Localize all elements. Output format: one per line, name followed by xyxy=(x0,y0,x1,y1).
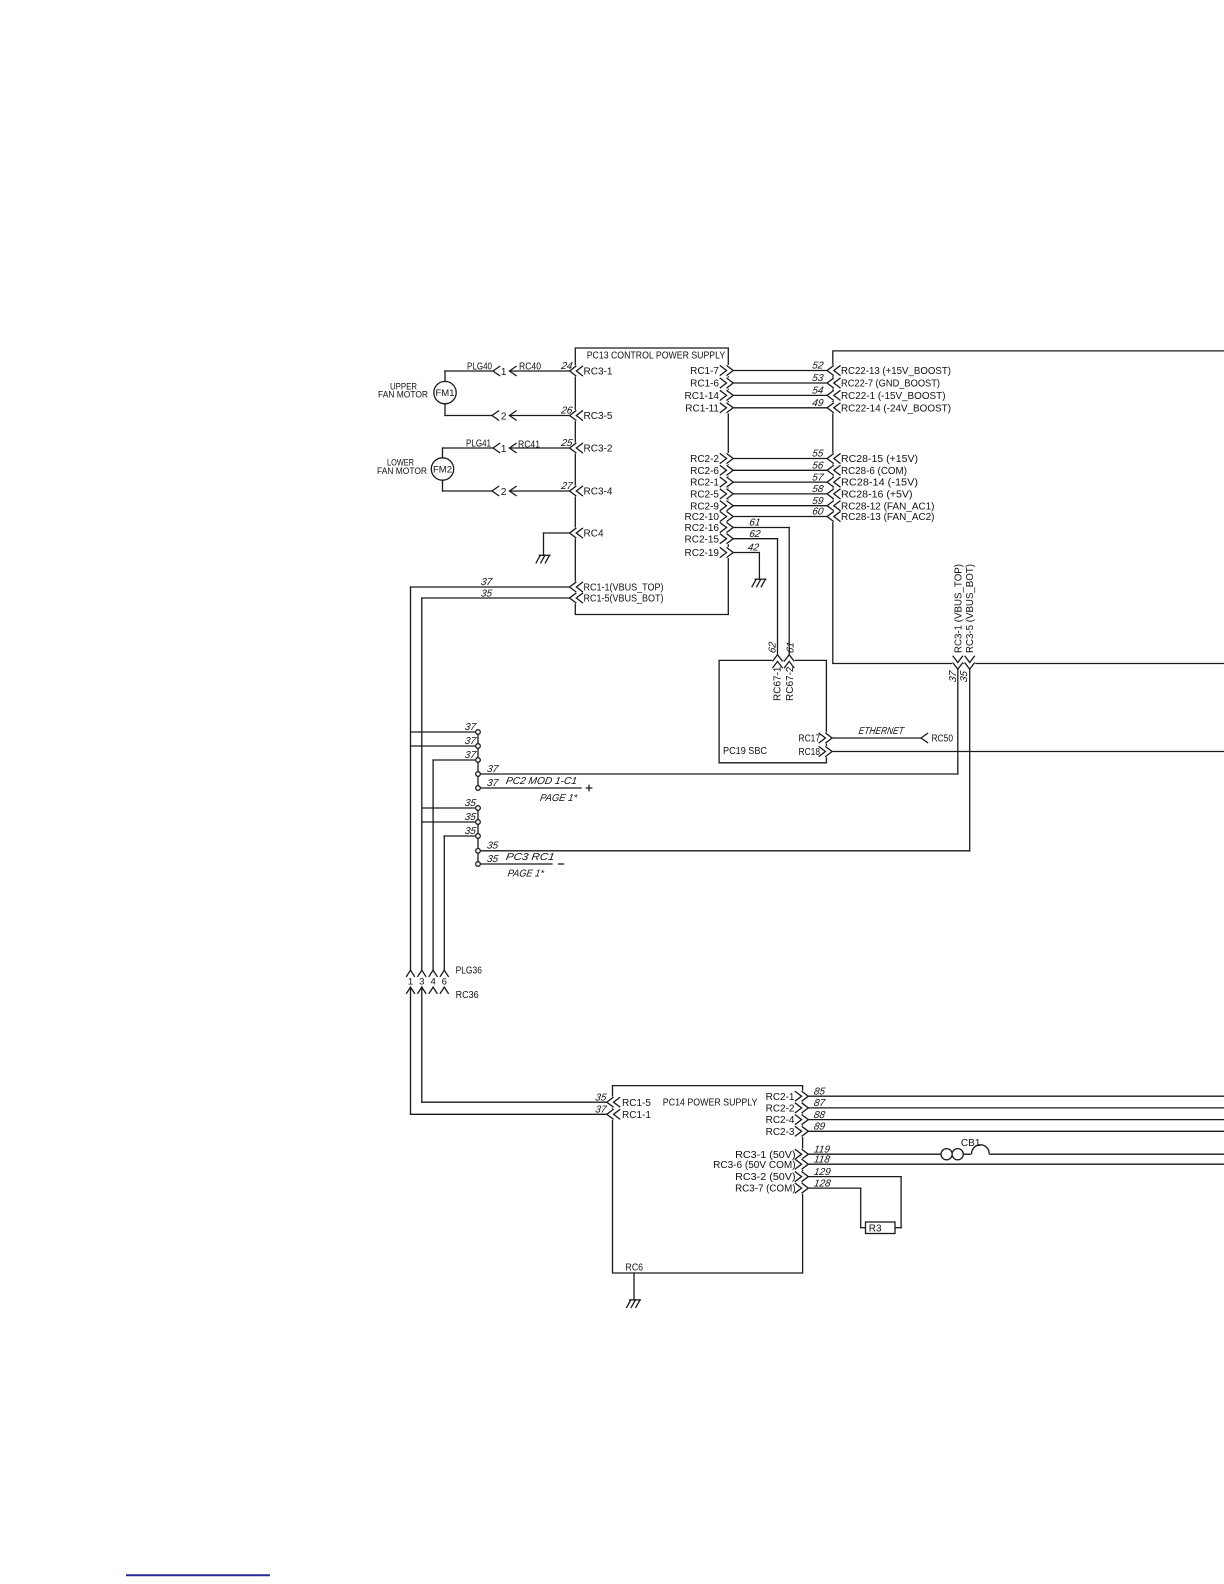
svg-text:RC2-5: RC2-5 xyxy=(690,490,719,501)
svg-text:RC28-14 (-15V): RC28-14 (-15V) xyxy=(841,478,918,489)
wire 52 RC1-7 to RC22 xyxy=(733,361,827,372)
svg-text:87: 87 xyxy=(813,1098,826,1109)
wire 55 RC2-2 to RC28 xyxy=(733,449,827,460)
wire 87 RC2-2 to page edge xyxy=(808,1098,1224,1109)
pin RC1-14 xyxy=(685,390,734,402)
svg-text:RC22-7 (GND_BOOST): RC22-7 (GND_BOOST) xyxy=(841,379,940,390)
svg-text:FAN MOTOR: FAN MOTOR xyxy=(378,390,428,400)
svg-text:R3: R3 xyxy=(869,1224,882,1235)
wire 88 RC2-4 to page edge xyxy=(808,1110,1224,1121)
svg-text:58: 58 xyxy=(811,484,824,495)
pin RC28-12 xyxy=(827,500,934,512)
pin RC3-5 xyxy=(559,406,612,422)
svg-text:RC3-4: RC3-4 xyxy=(584,487,613,498)
svg-text:RC1-7: RC1-7 xyxy=(690,366,719,377)
SBC box PC19 xyxy=(719,660,826,762)
pin RC28-16 xyxy=(827,488,912,500)
motor FM1 xyxy=(434,381,456,403)
svg-text:RC2-4: RC2-4 xyxy=(766,1115,795,1126)
wire 37 branch to PLG36-4 xyxy=(433,750,477,761)
svg-text:85: 85 xyxy=(813,1086,826,1097)
svg-text:61: 61 xyxy=(786,641,797,654)
ground at RC6 xyxy=(627,1300,641,1308)
wire ETHERNET RC17 to RC50 xyxy=(832,726,921,738)
svg-text:RC50: RC50 xyxy=(932,734,954,745)
svg-text:RC36: RC36 xyxy=(456,990,479,1001)
svg-text:RC2-2: RC2-2 xyxy=(690,454,719,465)
svg-text:RC2-10: RC2-10 xyxy=(685,512,720,523)
svg-text:61: 61 xyxy=(748,518,761,529)
pin RC17 xyxy=(799,732,833,744)
wire RC6 to ground xyxy=(633,1273,635,1300)
pin RC22-13 xyxy=(827,365,951,377)
svg-text:RC2-6: RC2-6 xyxy=(690,466,719,477)
node 37 xyxy=(476,744,481,749)
node 37 xyxy=(476,772,481,777)
wire 128 RC3-7 to R3 xyxy=(808,1178,865,1227)
wire FM2 pin2 to RC3-4 xyxy=(443,480,570,498)
pin RC2-19 xyxy=(685,547,734,559)
plug RC50 xyxy=(921,733,953,744)
svg-text:RC67-2: RC67-2 xyxy=(785,666,796,701)
resistor R3 xyxy=(866,1222,896,1235)
pin RC67-1 xyxy=(767,641,783,701)
svg-text:37: 37 xyxy=(486,764,499,775)
pin RC1-1 on PC14 xyxy=(594,1105,651,1121)
wire 61 RC2-16 to RC67-2 xyxy=(733,518,789,655)
pin RC3-1 (VBUS_TOP) on bus box xyxy=(948,564,964,683)
wire bus pin6 vertical xyxy=(443,836,445,970)
svg-text:2: 2 xyxy=(501,487,507,498)
wire bus 37 vertical xyxy=(410,587,412,970)
svg-text:RC67-1: RC67-1 xyxy=(773,666,784,701)
wire 35 ladder spine xyxy=(477,808,479,864)
wire 118 RC3-6 to page edge xyxy=(808,1154,1224,1165)
svg-text:RC1-5(VBUS_BOT): RC1-5(VBUS_BOT) xyxy=(584,594,664,605)
wire 35 RC1-5 to bus xyxy=(422,589,570,600)
wire 35 branch from RC1-5 bus xyxy=(422,798,477,809)
svg-text:52: 52 xyxy=(811,361,824,372)
wire 56 RC2-6 to RC28 xyxy=(733,461,827,472)
pin RC1-7 xyxy=(690,365,733,377)
receptacle RC36 xyxy=(407,987,479,1001)
svg-text:26: 26 xyxy=(559,406,573,417)
wire 59 RC2-9 to RC28 xyxy=(733,496,827,507)
svg-text:RC22-13 (+15V_BOOST): RC22-13 (+15V_BOOST) xyxy=(841,366,951,377)
svg-text:RC18: RC18 xyxy=(799,747,821,758)
svg-text:RC3-5: RC3-5 xyxy=(584,411,613,422)
svg-text:RC2-16: RC2-16 xyxy=(685,523,720,534)
svg-text:RC40: RC40 xyxy=(519,362,541,373)
svg-text:PC13 CONTROL POWER SUPPLY: PC13 CONTROL POWER SUPPLY xyxy=(587,351,726,362)
wire 37 branch from RC1-1 bus xyxy=(411,722,478,733)
breaker CB1 xyxy=(941,1138,989,1160)
svg-text:RC1-1(VBUS_TOP): RC1-1(VBUS_TOP) xyxy=(584,583,664,594)
wire RC4 to ground xyxy=(544,533,570,555)
svg-text:1: 1 xyxy=(501,444,507,455)
pin RC3-5 (VBUS_BOT) on bus box xyxy=(959,564,976,683)
svg-text:128: 128 xyxy=(813,1178,832,1189)
wire bus pin4 vertical xyxy=(432,760,434,970)
svg-text:RC2-3: RC2-3 xyxy=(766,1127,795,1138)
svg-text:RC3-7 (COM): RC3-7 (COM) xyxy=(735,1184,796,1195)
node minus terminal xyxy=(559,863,564,865)
svg-text:FM2: FM2 xyxy=(433,465,452,476)
svg-text:PC2 MOD 1-C1: PC2 MOD 1-C1 xyxy=(505,776,578,787)
wire 49 RC1-11 to RC22 xyxy=(733,398,827,409)
svg-text:27: 27 xyxy=(559,481,573,492)
svg-text:RC22-1 (-15V_BOOST): RC22-1 (-15V_BOOST) xyxy=(841,391,946,402)
wire 35 to VBUS_BOT chevron xyxy=(480,841,969,852)
pin RC4 xyxy=(570,527,604,539)
wire 35 VBUS_BOT drop xyxy=(969,669,971,851)
power supply box PC13 xyxy=(575,348,728,615)
svg-text:RC3-2 (50V): RC3-2 (50V) xyxy=(735,1172,796,1183)
svg-text:ETHERNET: ETHERNET xyxy=(858,726,905,737)
wire 54 RC1-14 to RC22 xyxy=(733,386,827,397)
svg-text:118: 118 xyxy=(813,1154,831,1165)
wire 85 RC2-1 to page edge xyxy=(808,1086,1224,1097)
svg-text:49: 49 xyxy=(811,398,824,409)
label UPPER FAN MOTOR xyxy=(378,381,428,399)
label LOWER FAN MOTOR xyxy=(377,458,427,476)
wire 37 RC1-1 to bus xyxy=(411,577,570,588)
svg-text:PLG41: PLG41 xyxy=(466,439,491,450)
pin RC22-14 xyxy=(827,402,951,414)
wire FM1 pin1 to RC3-1 xyxy=(445,361,570,381)
wire 129 RC3-2 to R3 xyxy=(808,1167,901,1228)
pin RC67-2 xyxy=(784,641,797,701)
pin RC1-5 (VBUS_BOT) xyxy=(570,592,664,604)
wire 53 RC1-6 to RC22 xyxy=(733,373,827,384)
pin RC22-1 xyxy=(827,390,945,402)
pin RC3-2 (50V) on PC14 xyxy=(735,1171,808,1183)
pin RC3-7 (COM) on PC14 xyxy=(735,1183,808,1195)
pin RC1-6 xyxy=(690,377,733,389)
svg-text:35: 35 xyxy=(594,1092,607,1103)
svg-text:RC41: RC41 xyxy=(518,440,540,451)
svg-text:RC1-11: RC1-11 xyxy=(685,403,719,414)
svg-text:RC1-14: RC1-14 xyxy=(685,391,720,402)
pin RC28-6 xyxy=(827,465,907,477)
ground at RC2-19 xyxy=(752,579,766,587)
svg-text:RC3-1 (VBUS_TOP): RC3-1 (VBUS_TOP) xyxy=(953,564,964,653)
svg-text:35: 35 xyxy=(486,841,499,852)
revision underline mark xyxy=(127,1574,269,1576)
pin RC2-6 xyxy=(690,465,733,477)
svg-text:35: 35 xyxy=(486,854,499,865)
svg-text:RC28-12 (FAN_AC1): RC28-12 (FAN_AC1) xyxy=(841,501,935,512)
svg-text:RC22-14 (-24V_BOOST): RC22-14 (-24V_BOOST) xyxy=(841,403,951,414)
svg-text:PC14 POWER SUPPLY: PC14 POWER SUPPLY xyxy=(663,1097,758,1108)
svg-text:RC2-9: RC2-9 xyxy=(690,501,719,512)
svg-text:89: 89 xyxy=(813,1122,826,1133)
wire 37 RC36-1 to PC14 RC1-1 xyxy=(411,987,608,1114)
pin RC22-7 xyxy=(827,377,940,389)
svg-text:PLG40: PLG40 xyxy=(467,361,492,372)
svg-text:RC3-6 (50V COM): RC3-6 (50V COM) xyxy=(713,1160,796,1171)
power supply box PC14 xyxy=(613,1086,803,1273)
pin RC28-15 xyxy=(827,453,918,465)
pin RC28-14 xyxy=(827,477,918,489)
ground at RC4 xyxy=(536,555,550,563)
svg-text:60: 60 xyxy=(811,507,824,518)
pin RC3-6 (50V COM) on PC14 xyxy=(713,1159,808,1171)
node 35 xyxy=(476,806,481,811)
node 37 xyxy=(476,758,481,763)
svg-text:35: 35 xyxy=(959,670,970,683)
pin numbers 1 3 4 6 xyxy=(408,977,447,988)
svg-text:35: 35 xyxy=(480,589,493,600)
pin RC2-2 xyxy=(690,453,733,465)
svg-text:24: 24 xyxy=(559,361,573,372)
pin RC1-1 (VBUS_TOP) xyxy=(570,581,664,593)
pin RC2-5 xyxy=(690,488,733,500)
pin RC2-1 xyxy=(690,477,733,489)
svg-text:RC28-15 (+15V): RC28-15 (+15V) xyxy=(841,454,918,465)
svg-text:129: 129 xyxy=(813,1167,832,1178)
svg-text:62: 62 xyxy=(767,641,778,654)
pin RC28-13 xyxy=(827,511,934,523)
svg-text:RC2-19: RC2-19 xyxy=(685,548,720,559)
pin RC2-4 on PC14 xyxy=(766,1114,809,1126)
pin RC2-2 on PC14 xyxy=(766,1102,809,1114)
wire 57 RC2-1 to RC28 xyxy=(733,472,827,483)
wire 62 RC2-15 to RC67-1 xyxy=(733,529,777,655)
svg-text:54: 54 xyxy=(811,386,824,397)
svg-text:RC28-16 (+5V): RC28-16 (+5V) xyxy=(841,490,913,501)
motor FM2 xyxy=(431,458,453,480)
pin RC2-1 on PC14 xyxy=(766,1091,809,1103)
node plus terminal xyxy=(586,785,591,790)
wire RC18 to page edge xyxy=(832,751,1224,753)
node 35 xyxy=(476,862,481,867)
svg-text:RC1-5: RC1-5 xyxy=(622,1098,651,1109)
svg-text:57: 57 xyxy=(811,472,824,483)
svg-text:37: 37 xyxy=(480,577,493,588)
svg-text:56: 56 xyxy=(811,461,824,472)
svg-text:RC4: RC4 xyxy=(584,529,604,540)
wire FM2 pin1 to RC3-2 xyxy=(443,439,570,458)
wire 60 RC2-10 to RC28 xyxy=(733,507,827,518)
wire 35 branch to PLG36-6 xyxy=(444,826,477,837)
svg-text:53: 53 xyxy=(811,373,824,384)
svg-text:FAN MOTOR: FAN MOTOR xyxy=(377,466,427,476)
pin RC2-16 xyxy=(685,522,734,534)
svg-text:CB1: CB1 xyxy=(961,1138,981,1149)
svg-text:RC28-13 (FAN_AC2): RC28-13 (FAN_AC2) xyxy=(841,512,935,523)
node 35 xyxy=(476,849,481,854)
svg-text:PLG36: PLG36 xyxy=(456,966,483,977)
bus box RC22/RC28 xyxy=(833,351,1224,664)
svg-text:RC3-5 (VBUS_BOT): RC3-5 (VBUS_BOT) xyxy=(965,564,976,653)
wire 119 RC3-1 through CB1 xyxy=(808,1144,1224,1155)
wire 58 RC2-5 to RC28 xyxy=(733,484,827,495)
svg-text:RC28-6 (COM): RC28-6 (COM) xyxy=(841,466,907,477)
svg-text:PAGE 1*: PAGE 1* xyxy=(507,869,546,880)
wire 42 RC2-19 to ground xyxy=(733,543,760,579)
svg-text:55: 55 xyxy=(811,449,824,460)
wire 35 branch to PLG36-3 xyxy=(422,812,477,823)
wire 37 VBUS_TOP drop xyxy=(957,669,959,774)
pin RC1-5 on PC14 xyxy=(594,1092,651,1108)
svg-text:PAGE 1*: PAGE 1* xyxy=(539,793,579,804)
svg-text:RC2-1: RC2-1 xyxy=(690,478,719,489)
pin RC2-9 xyxy=(690,500,733,512)
svg-text:88: 88 xyxy=(813,1110,826,1121)
svg-text:42: 42 xyxy=(747,543,760,554)
wire 37 stub PC2 MOD 1-C1 xyxy=(480,776,581,804)
svg-text:RC1-1: RC1-1 xyxy=(622,1110,651,1121)
pin RC3-2 xyxy=(559,438,612,454)
svg-text:RC2-1: RC2-1 xyxy=(766,1092,795,1103)
svg-text:RC3-2: RC3-2 xyxy=(584,444,613,455)
svg-text:FM1: FM1 xyxy=(436,388,455,399)
pin RC2-3 on PC14 xyxy=(766,1126,809,1138)
svg-text:59: 59 xyxy=(811,496,824,507)
svg-text:62: 62 xyxy=(748,529,761,540)
node 37 xyxy=(476,730,481,735)
pin RC3-1 xyxy=(559,361,612,377)
node 35 xyxy=(476,820,481,825)
wire 35 RC36-3 to PC14 RC1-5 xyxy=(422,987,607,1102)
wire 89 RC2-3 to page edge xyxy=(808,1122,1224,1133)
svg-text:37: 37 xyxy=(486,778,499,789)
svg-text:2: 2 xyxy=(501,411,507,422)
svg-text:25: 25 xyxy=(559,438,573,449)
pin RC1-11 xyxy=(685,402,733,414)
svg-text:RC3-1: RC3-1 xyxy=(584,367,613,378)
svg-text:1: 1 xyxy=(501,367,507,378)
svg-text:RC17: RC17 xyxy=(799,734,821,745)
svg-text:RC6: RC6 xyxy=(626,1263,644,1274)
wire 37 to VBUS_TOP chevron xyxy=(480,764,958,775)
svg-text:RC2-2: RC2-2 xyxy=(766,1104,795,1115)
svg-text:37: 37 xyxy=(948,670,959,683)
wire FM1 pin2 to RC3-5 xyxy=(445,404,570,423)
svg-text:RC1-6: RC1-6 xyxy=(690,379,719,390)
pin RC2-15 xyxy=(685,533,734,545)
pin RC3-4 xyxy=(559,481,612,497)
pin RC6 on PC14 xyxy=(626,1263,644,1274)
pin RC2-10 xyxy=(685,511,734,523)
wire 37 ladder spine xyxy=(477,732,479,788)
wire 37 branch to PLG36-1 xyxy=(411,736,478,747)
node 35 xyxy=(476,834,481,839)
svg-text:37: 37 xyxy=(594,1105,607,1116)
wire 35 stub PC3 RC1 xyxy=(480,852,555,879)
pin RC18 xyxy=(799,746,833,758)
node 37 xyxy=(476,786,481,791)
svg-text:PC19 SBC: PC19 SBC xyxy=(723,746,767,757)
wire bus 35 vertical xyxy=(421,598,423,970)
plug PLG36 xyxy=(407,966,483,977)
svg-text:RC2-15: RC2-15 xyxy=(685,534,720,545)
svg-text:PC3 RC1: PC3 RC1 xyxy=(505,852,555,863)
pin RC3-1 (50V) on PC14 xyxy=(735,1149,808,1161)
